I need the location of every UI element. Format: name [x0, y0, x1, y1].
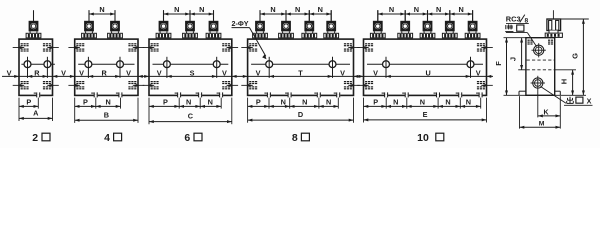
svg-text:N: N [99, 5, 104, 14]
svg-text:N: N [302, 97, 307, 106]
svg-text:N: N [270, 5, 275, 14]
svg-text:4: 4 [104, 132, 110, 144]
svg-text:P: P [256, 97, 261, 106]
svg-text:N: N [389, 5, 394, 14]
svg-text:V: V [256, 68, 261, 77]
svg-text:R: R [102, 68, 108, 77]
svg-text:N: N [186, 97, 191, 106]
svg-text:V: V [157, 68, 162, 77]
svg-text:V: V [79, 68, 84, 77]
svg-text:H: H [560, 79, 569, 84]
svg-text:V: V [476, 68, 481, 77]
svg-text:R: R [34, 68, 40, 77]
svg-text:M: M [539, 120, 545, 127]
svg-text:D: D [298, 110, 303, 119]
svg-text:K: K [543, 109, 548, 116]
svg-text:N: N [445, 97, 450, 106]
svg-text:B: B [104, 110, 109, 119]
svg-text:N: N [466, 97, 471, 106]
svg-text:F: F [494, 61, 503, 66]
svg-text:RC3: RC3 [506, 14, 521, 23]
svg-text:10: 10 [417, 132, 429, 144]
svg-text:P: P [26, 97, 31, 106]
svg-text:N: N [106, 97, 111, 106]
svg-text:J: J [508, 57, 517, 61]
svg-text:C: C [188, 112, 194, 121]
svg-text:A: A [33, 108, 39, 117]
svg-text:V: V [7, 68, 12, 77]
svg-text:N: N [295, 5, 300, 14]
svg-text:T: T [298, 68, 303, 77]
svg-text:P: P [373, 97, 378, 106]
svg-text:N: N [414, 5, 419, 14]
svg-text:N: N [174, 5, 179, 14]
svg-text:N: N [420, 97, 425, 106]
svg-text:V: V [126, 68, 131, 77]
svg-text:U: U [426, 68, 431, 77]
svg-text:E: E [423, 110, 428, 119]
svg-text:N: N [281, 97, 286, 106]
svg-text:N: N [393, 97, 398, 106]
svg-text:P: P [163, 97, 168, 106]
svg-text:N: N [459, 5, 464, 14]
svg-text:V: V [373, 68, 378, 77]
svg-text:N: N [326, 97, 331, 106]
svg-text:N: N [318, 5, 323, 14]
svg-text:8: 8 [292, 132, 298, 144]
svg-text:2-ΦY: 2-ΦY [231, 19, 248, 28]
svg-text:V: V [340, 68, 345, 77]
svg-text:N: N [208, 97, 213, 106]
svg-text:S: S [190, 68, 195, 77]
svg-text:P: P [83, 97, 88, 106]
svg-text:G: G [570, 53, 579, 59]
svg-text:V: V [61, 68, 66, 77]
svg-text:6: 6 [184, 132, 190, 144]
svg-text:2: 2 [32, 132, 38, 144]
svg-text:N: N [436, 5, 441, 14]
svg-text:X: X [587, 97, 592, 106]
svg-text:V: V [222, 68, 227, 77]
svg-text:N: N [199, 5, 204, 14]
